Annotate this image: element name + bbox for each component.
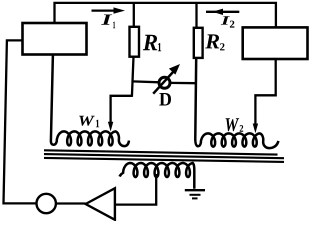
- wire (left rail from left box to oscillator): [4, 40, 37, 203]
- wire (junction to detector, left side): [132, 80, 160, 83]
- label I1: [101, 15, 115, 29]
- winding W1 (with left lead from top-left box): [51, 55, 129, 147]
- resistor R2: [194, 28, 203, 58]
- galvanometer D (circle with diagonal arrow): [153, 64, 180, 94]
- resistor R1: [130, 27, 140, 57]
- current arrow I2: [206, 9, 239, 15]
- oscillator (circle): [37, 194, 56, 213]
- label W2: [226, 118, 244, 131]
- winding W3 (feedback winding under core, right lead to ground): [120, 163, 195, 189]
- box (top-left bridge arm unit): [23, 23, 87, 55]
- wire (jog from R1 branch down into winding W1 with current arrow): [108, 96, 132, 132]
- label I2: [221, 16, 235, 27]
- wire (right box bottom lead with jog down into winding W2 and current arrow): [253, 59, 276, 133]
- transformer core (three lamination lines): [44, 150, 284, 162]
- box (top-right bridge arm unit): [243, 27, 308, 59]
- wire (amplifier output to oscillator): [56, 202, 86, 204]
- wire (R2 top lead from top bus): [195, 3, 197, 28]
- label D: [159, 93, 171, 106]
- label W1: [79, 116, 99, 127]
- label R2: [205, 34, 224, 50]
- wire (detector to R2 branch, right side): [170, 82, 195, 85]
- wire (top bus: left box top lead, top rail, right box top lead): [55, 3, 276, 28]
- winding W2 (with left lead from R2 branch): [195, 58, 278, 148]
- label R1: [143, 35, 161, 51]
- amplifier (triangle pointing left): [86, 188, 115, 220]
- wire (R1 bottom lead down to junction): [132, 57, 134, 97]
- wire (R1 top lead from top bus): [133, 3, 135, 27]
- current arrow I1: [92, 7, 126, 13]
- ground: [185, 190, 205, 198]
- wire (winding W3 tap down to amplifier input): [115, 174, 156, 205]
